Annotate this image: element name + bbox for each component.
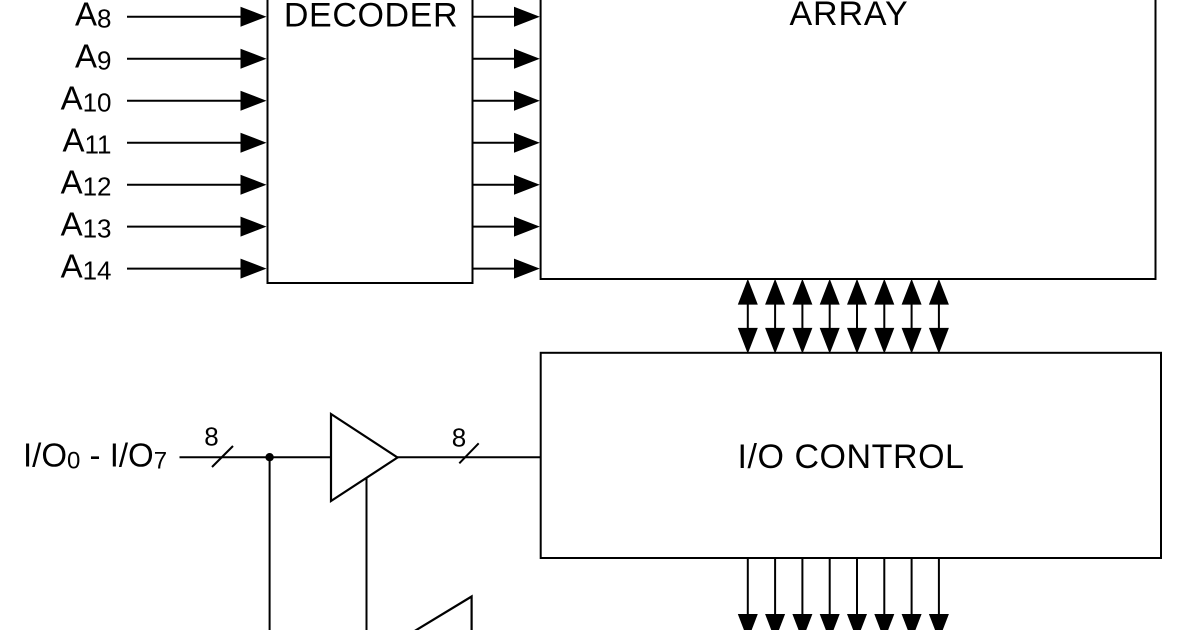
wire A9 — [127, 58, 244, 60]
output bus below io control bit 5 — [874, 559, 894, 630]
svg-text:I/O CONTROL: I/O CONTROL — [737, 438, 964, 476]
output bus below io control bit 3 — [820, 559, 840, 630]
wire decoder to array row 6 — [473, 226, 518, 228]
wire A14 — [127, 268, 244, 270]
bidirectional bus array/io bit 6 — [902, 279, 922, 354]
output bus below io control bit 6 — [902, 559, 922, 630]
input buffer triangle — [331, 414, 398, 501]
wire buffer enable — [366, 478, 368, 630]
wire I/O bus into junction — [180, 456, 332, 458]
svg-text:8: 8 — [204, 422, 218, 452]
bidirectional bus array/io bit 5 — [874, 279, 894, 354]
arrowhead row 6 into array — [514, 217, 540, 237]
output bus below io control bit 1 — [765, 559, 785, 630]
bidirectional bus array/io bit 7 — [929, 279, 949, 354]
decoder block U1 — [268, 0, 473, 283]
wire junction down to output buffer — [269, 457, 271, 630]
wire A11 — [127, 142, 244, 144]
output bus below io control bit 4 — [847, 559, 867, 630]
svg-text:I/O0 - I/O7: I/O0 - I/O7 — [23, 437, 167, 475]
arrowhead row 4 into array — [514, 133, 540, 153]
output bus below io control bit 0 — [738, 559, 758, 630]
bus width slash 2 — [459, 443, 478, 463]
arrowhead A10 into decoder — [241, 91, 267, 111]
arrowhead row 1 into array — [514, 7, 540, 27]
arrowhead row 2 into array — [514, 49, 540, 69]
output bus below io control bit 7 — [929, 559, 949, 630]
bidirectional bus array/io bit 3 — [820, 279, 840, 354]
svg-text:A8: A8 — [75, 0, 111, 34]
output bus below io control bit 2 — [792, 559, 812, 630]
wire decoder to array row 7 — [473, 268, 518, 270]
wire decoder to array row 3 — [473, 100, 518, 102]
wire decoder to array row 2 — [473, 58, 518, 60]
bidirectional bus array/io bit 0 — [738, 279, 758, 354]
arrowhead row 3 into array — [514, 91, 540, 111]
svg-text:ARRAY: ARRAY — [789, 0, 908, 33]
svg-text:8: 8 — [452, 423, 466, 453]
wire decoder to array row 4 — [473, 142, 518, 144]
wire A8 — [127, 16, 244, 18]
bidirectional bus array/io bit 1 — [765, 279, 785, 354]
wire decoder to array row 5 — [473, 184, 518, 186]
arrowhead A9 into decoder — [241, 49, 267, 69]
wire A13 — [127, 226, 244, 228]
junction dot — [265, 453, 273, 461]
wire decoder to array row 1 — [473, 16, 518, 18]
wire A10 — [127, 100, 244, 102]
arrowhead row 5 into array — [514, 175, 540, 195]
arrowhead row 7 into array — [514, 259, 540, 279]
I/O control block — [541, 353, 1161, 558]
svg-text:DECODER: DECODER — [284, 0, 458, 35]
arrowhead A11 into decoder — [241, 133, 267, 153]
wire A12 — [127, 184, 244, 186]
wire buffer output to io control — [398, 456, 541, 458]
arrowhead A8 into decoder — [241, 7, 267, 27]
arrowhead A13 into decoder — [241, 217, 267, 237]
output buffer triangle (partial, points left) — [399, 597, 472, 630]
bus width slash 1 — [212, 446, 233, 467]
memory array block — [541, 0, 1156, 279]
bidirectional bus array/io bit 4 — [847, 279, 867, 354]
bidirectional bus array/io bit 2 — [792, 279, 812, 354]
arrowhead A12 into decoder — [241, 175, 267, 195]
arrowhead A14 into decoder — [241, 259, 267, 279]
